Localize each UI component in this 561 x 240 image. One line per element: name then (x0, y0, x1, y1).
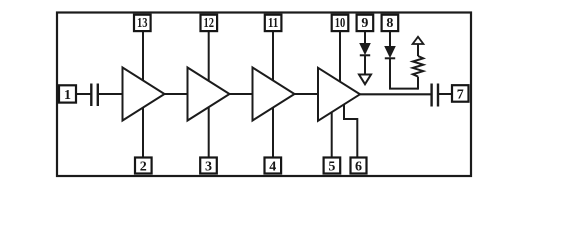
IC package outline (57, 13, 471, 177)
open arrow up (bias net) (413, 37, 424, 44)
pin 12 box (201, 15, 218, 31)
svg-text:7: 7 (457, 87, 464, 102)
amplifier A1 (123, 68, 165, 121)
pin 2 box (135, 158, 152, 174)
amplifier A3 (253, 68, 295, 121)
capacitor C-in plate 2 (97, 84, 99, 107)
wire A3 to A4 (294, 93, 319, 95)
pin 8 box (382, 15, 399, 31)
svg-text:11: 11 (268, 16, 279, 31)
pin 3 box (200, 158, 217, 174)
amplifier A2 (188, 68, 230, 121)
pin 1 box (59, 85, 76, 102)
svg-text:9: 9 (361, 16, 368, 31)
wire resistor R1 to bias line (417, 77, 419, 90)
svg-text:13: 13 (137, 16, 148, 31)
wire D1 to open arrow (364, 55, 366, 75)
svg-text:6: 6 (355, 159, 362, 174)
wire arrow to resistor R1 (417, 44, 419, 56)
capacitor C-out plate 1 (430, 84, 432, 107)
pin 11 box (265, 15, 282, 31)
capacitor C-out plate 2 (437, 84, 439, 107)
capacitor C-in plate 1 (90, 84, 92, 107)
wire A1 to A2 (164, 93, 189, 95)
diode D1 (pin9) (360, 44, 370, 55)
svg-text:2: 2 (140, 159, 147, 174)
svg-text:4: 4 (269, 159, 276, 174)
svg-text:3: 3 (205, 159, 212, 174)
svg-text:10: 10 (335, 16, 346, 31)
svg-text:1: 1 (64, 88, 71, 103)
wire A2 to A3 (229, 93, 254, 95)
pin 6 box (351, 158, 367, 174)
svg-text:5: 5 (328, 159, 335, 174)
pin 10 box (332, 15, 349, 31)
pin 4 box (265, 158, 282, 174)
wire pin11 to pin4 (through A3) (272, 31, 274, 158)
wire A4 to C-out (360, 93, 432, 95)
wire pin1 to C-in (76, 93, 91, 95)
resistor R1 (413, 56, 423, 77)
wire D2 down and right to resistor (390, 58, 418, 88)
pin 7 box (452, 85, 469, 102)
diode D2 (pin8) (385, 47, 395, 58)
svg-text:8: 8 (386, 16, 393, 31)
svg-text:12: 12 (204, 16, 215, 31)
amplifier A4 (318, 68, 360, 121)
open arrow down (pin9 net) (359, 75, 371, 85)
wire C-in to A1 (98, 93, 124, 95)
wire pin10 to A4 top edge (339, 31, 341, 88)
wire pin8 to diode D2 (389, 31, 391, 47)
pin 9 box (357, 15, 374, 31)
wire pin13 to pin2 (through A1) (142, 31, 144, 158)
wire C-out to pin7 (438, 93, 452, 95)
wire A4 bottom edge to pin5 (331, 108, 333, 158)
wire A4 bottom edge to pin6 (jog) (344, 101, 357, 158)
wire pin12 to pin3 (through A2) (208, 31, 210, 158)
pin 13 box (134, 15, 151, 31)
wire pin9 to diode D1 (364, 31, 366, 44)
pin 5 box (324, 158, 341, 174)
